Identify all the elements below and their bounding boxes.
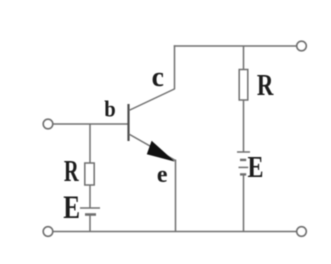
transistor emitter diagonal (129, 134, 176, 161)
transistor collector diagonal (129, 89, 175, 111)
transistor emitter arrow (147, 141, 175, 162)
battery E left: plate long (80, 207, 100, 209)
wire top rail (174, 45, 297, 47)
svg-text:c: c (152, 62, 164, 93)
battery E right: plate long top (237, 151, 250, 153)
svg-text:e: e (157, 161, 168, 188)
svg-text:R: R (64, 153, 79, 188)
svg-text:R: R (257, 67, 274, 102)
wire left branch lower (89, 215, 91, 232)
terminal top-right (297, 41, 307, 51)
resistor R right (body) (239, 70, 248, 101)
svg-text:E: E (248, 149, 264, 184)
wire bottom rail (53, 231, 297, 233)
wire collector vertical (174, 45, 176, 89)
wire base (53, 123, 128, 125)
wire right branch lower (243, 175, 245, 232)
svg-text:b: b (104, 97, 116, 122)
battery E left: plate short thick (85, 213, 96, 216)
terminal bottom-right (297, 227, 307, 237)
wire emitter vertical (175, 160, 177, 232)
wire left branch mid (89, 185, 91, 208)
terminal input left (43, 119, 53, 129)
svg-text:E: E (63, 190, 80, 226)
wire right branch mid (243, 100, 245, 152)
transistor Q1 (129, 89, 176, 162)
transistor base bar (127, 104, 129, 141)
terminal bottom-left (43, 227, 53, 237)
battery E right: plate short thick (240, 159, 246, 161)
battery E right: plate long lower (239, 166, 249, 168)
wire right branch upper (243, 46, 245, 70)
battery E right: plate short thick lower (240, 173, 246, 175)
resistor R left (body) (85, 163, 94, 185)
wire left branch upper (89, 124, 91, 163)
